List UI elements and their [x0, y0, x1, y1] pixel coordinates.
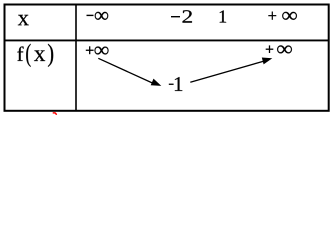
decreasing arrow shaft [98, 58, 153, 83]
header label x [18, 15, 29, 25]
decreasing arrow head [151, 79, 162, 86]
x value plus infinity [268, 12, 297, 20]
x value minus infinity [87, 12, 109, 20]
table outer border [5, 5, 329, 111]
x value 1 [220, 10, 226, 22]
increasing arrow head [262, 58, 273, 65]
red underline fragment [53, 113, 56, 114]
increasing arrow shaft [190, 61, 263, 82]
row divider line [5, 39, 329, 41]
f(x) limit plus infinity at left [86, 46, 109, 54]
column divider line [75, 5, 77, 111]
row label f of x [17, 44, 53, 67]
x value minus 2 [171, 10, 192, 22]
f(x) limit plus infinity at right [266, 45, 292, 53]
minimum value minus 1 [169, 77, 182, 91]
